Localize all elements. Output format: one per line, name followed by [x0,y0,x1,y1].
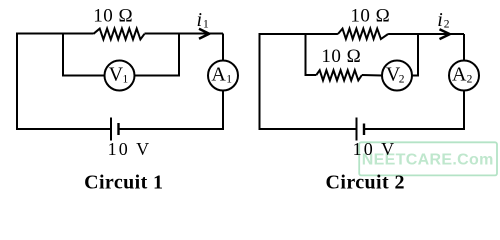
wire: voltmeter branch to right junction [135,34,180,76]
wire: circuit 1 bottom right of battery [119,128,225,130]
svg-text:2: 2 [467,73,473,85]
svg-text:1: 1 [226,73,232,85]
wire: circuit 1 right side upper [222,34,224,61]
wire: circuit 2 left side [259,34,261,129]
svg-text:2: 2 [444,18,450,30]
wire: circuit 1 left side [16,34,18,130]
svg-text:A: A [452,63,467,85]
svg-text:A: A [211,63,226,85]
svg-text:10 Ω: 10 Ω [321,46,361,67]
battery 10 V (circuit 2): short plate [363,124,365,136]
battery 10 V (circuit 1): long plate [110,118,112,141]
watermark NEETCARE.Com box [359,142,497,175]
wire: circuit 1 bottom left of battery [16,128,111,130]
wire: circuit 1 top, right of resistor [145,33,224,35]
wire: parallel branch drop (circuit 2 left junction) [306,34,317,75]
wire: circuit 2 top, right of resistor [388,33,464,35]
svg-text:i: i [197,9,203,31]
voltmeter V1 [105,61,135,91]
wire: circuit 2 right side lower [463,91,465,131]
ammeter A2 [449,61,479,91]
battery 10 V (circuit 2): long plate [356,118,358,141]
wire: circuit 1 top, left of resistor [16,33,94,35]
resistor 10 ohm (circuit 2 branch) [316,70,362,80]
svg-text:2: 2 [399,73,405,85]
wire: voltmeter branch drop (left junction) [63,34,105,76]
svg-text:10 Ω: 10 Ω [350,6,390,27]
wire: circuit 2 right side upper [463,34,465,61]
wire: circuit 2 bottom left of battery [259,128,357,130]
svg-text:1: 1 [203,18,209,30]
wire: branch resistor to voltmeter [362,74,382,77]
svg-text:V: V [109,63,124,85]
wire: circuit 2 top, left of resistor [259,33,338,35]
battery 10 V (circuit 1): short plate [117,123,119,135]
wire: voltmeter to right junction riser [412,34,418,76]
current arrow i2 [440,29,450,39]
svg-text:10 Ω: 10 Ω [93,6,133,27]
wire: circuit 1 right side lower [222,91,224,131]
ammeter A1 [208,61,238,91]
resistor 10 ohm (circuit 1 top) [94,29,145,40]
current arrow i1 [199,29,209,39]
voltmeter V2 [382,61,412,91]
resistor 10 ohm (circuit 2 top) [338,29,388,39]
svg-text:i: i [437,9,443,31]
wire: circuit 2 bottom right of battery [364,128,465,130]
svg-text:Circuit 1: Circuit 1 [84,171,163,193]
svg-text:Circuit 2: Circuit 2 [326,172,405,194]
svg-text:1: 1 [123,73,129,85]
